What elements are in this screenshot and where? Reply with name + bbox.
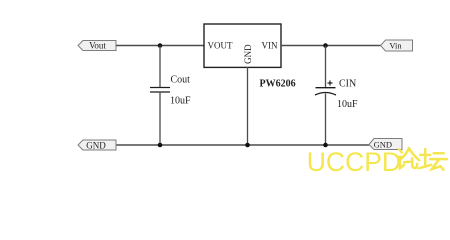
net label Vout [78, 41, 116, 51]
watermark character tan (earth radical) [419, 149, 431, 168]
junction node Vin/CIN [323, 43, 328, 48]
watermark character lun (ren roof and bottom) [400, 148, 419, 168]
wire Vout to U1 VOUT pin [116, 45, 204, 47]
IC U1 body PW6206 [204, 24, 281, 67]
net label GND left [78, 140, 116, 150]
svg-text:UCCPD: UCCPD [307, 147, 401, 173]
junction node Vout/Cout [158, 43, 163, 48]
svg-text:10uF: 10uF [170, 95, 191, 106]
svg-text:GND: GND [243, 44, 253, 64]
wire CIN bottom to ground rail [325, 94, 327, 146]
wire node to Cout top [159, 46, 161, 88]
wire U1 GND pin to ground rail [247, 67, 249, 145]
svg-text:CIN: CIN [339, 78, 356, 89]
net label Vin [381, 40, 413, 51]
capacitor Cout [150, 88, 170, 93]
watermark character lun (speech radical) [398, 149, 404, 168]
svg-text:Vout: Vout [89, 41, 106, 51]
ground rail wire [116, 144, 369, 146]
svg-text:10uF: 10uF [337, 99, 358, 110]
svg-text:VIN: VIN [262, 41, 278, 51]
junction CIN on ground rail [323, 143, 328, 148]
svg-text:Cout: Cout [171, 75, 191, 86]
svg-text:PW6206: PW6206 [260, 79, 296, 90]
capacitor CIN polarized [315, 88, 336, 95]
wire Cout bottom to ground rail [159, 92, 161, 145]
junction U1 GND on ground rail [245, 143, 250, 148]
wire U1 VIN pin to Vin label [281, 45, 381, 47]
wire node to CIN top [325, 46, 327, 88]
svg-text:Vin: Vin [389, 41, 402, 51]
junction Cout on ground rail [158, 143, 163, 148]
watermark character tan (yun part) [430, 153, 447, 170]
svg-text:GND: GND [86, 140, 106, 150]
polarity plus mark of CIN [328, 81, 333, 86]
svg-text:VOUT: VOUT [208, 41, 233, 51]
net label GND right [369, 139, 402, 150]
